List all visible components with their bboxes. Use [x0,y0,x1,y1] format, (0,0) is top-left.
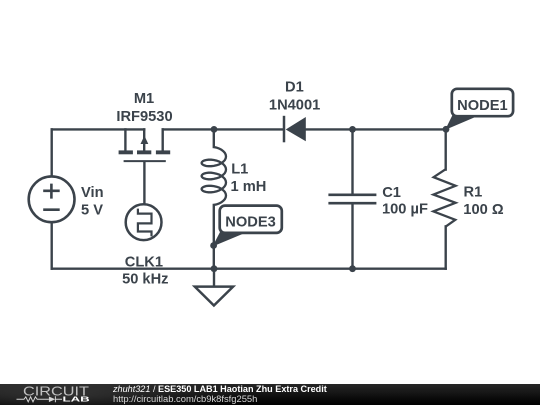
svg-text:M1: M1 [134,91,154,107]
svg-text:IRF9530: IRF9530 [116,109,172,125]
svg-text:1 mH: 1 mH [231,179,267,195]
junction dot NODE1 anchor [443,126,450,133]
inductor L1 1 mH [202,147,267,205]
svg-text:CLK1: CLK1 [125,254,163,270]
footer bar [0,384,540,405]
wire R1 bottom drop [445,226,447,268]
node flag NODE1 [446,89,513,129]
wire M1 to diode D1 [163,128,283,130]
diode D1 1N4001 [269,80,320,143]
svg-text:1N4001: 1N4001 [269,97,320,113]
voltage source Vin 5 V [29,176,104,222]
svg-text:Vin: Vin [81,185,104,201]
wire left rail lower [51,222,53,269]
junction dot C1 bottom [349,265,356,272]
svg-text:D1: D1 [285,80,304,96]
junction dot NODE3 anchor [210,242,217,249]
junction dot L1 top [211,126,218,133]
wire R1 top drop [445,129,447,169]
node flag NODE3 [214,206,282,246]
svg-text:100 µF: 100 µF [382,202,428,218]
svg-text:5 V: 5 V [81,202,103,218]
wire diode D1 to NODE1 corner [306,128,446,130]
footer caption line 1 [113,385,327,394]
clock source CLK1 50 kHz [122,204,168,287]
wire L1 bottom lead to ground rail [213,205,215,269]
wire C1 top drop [351,129,353,193]
wire C1 bottom drop [351,204,353,269]
junction dot ground rail [211,265,218,272]
svg-text:C1: C1 [382,185,401,201]
resistor R1 100 ohm [433,169,503,226]
svg-text:NODE1: NODE1 [457,98,508,114]
ground [195,269,233,306]
svg-text:100 Ω: 100 Ω [463,202,504,218]
footer caption line 2 [113,394,257,403]
wire left rail upper [51,129,53,176]
svg-text:L1: L1 [231,162,248,178]
wire bottom rail [52,268,446,270]
CircuitLab logo [0,384,110,405]
wire top-left from Vin to M1 [52,128,145,130]
svg-text:NODE3: NODE3 [225,214,276,230]
transistor M1 PMOS IRF9530 [116,91,172,204]
junction dot C1 top [349,126,356,133]
wire L1 top lead [213,129,215,147]
svg-text:LAB: LAB [63,395,91,404]
svg-text:R1: R1 [464,185,483,201]
svg-text:50 kHz: 50 kHz [122,272,168,288]
logo squiggle resistor+diode [17,396,63,402]
capacitor C1 100 uF [328,185,428,218]
